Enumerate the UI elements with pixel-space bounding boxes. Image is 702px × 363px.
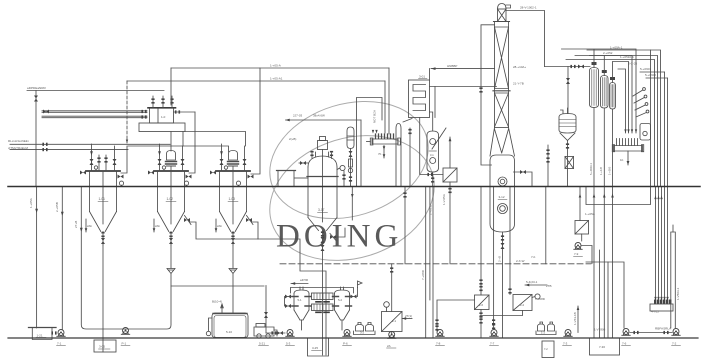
svg-text:2-+05B: 2-+05B <box>55 202 59 212</box>
drop wire B <box>61 187 63 331</box>
twin canister unit B base <box>536 331 556 335</box>
svg-text:RLxxLNxxNElm: RLxxLNxxNElm <box>8 139 30 143</box>
svg-text:NOT BZA: NOT BZA <box>373 110 377 123</box>
column right drain valve <box>514 172 533 186</box>
svg-text:1-+0-B: 1-+0-B <box>599 167 603 175</box>
filter C gauge <box>384 302 390 308</box>
drain tank rim <box>29 327 57 329</box>
left riser to ground <box>432 187 434 339</box>
funnel drain pipe to tank <box>232 274 234 313</box>
feed drop to P-1 <box>265 286 267 334</box>
riser wire pair <box>360 120 362 186</box>
pedestal outlet pipe <box>185 132 246 147</box>
heater serpentine coil <box>413 85 426 111</box>
mid riser wire <box>409 128 411 186</box>
svg-text:7-b: 7-b <box>531 255 536 259</box>
bin body 1-03 <box>220 172 247 212</box>
pump 7-1 <box>57 330 65 337</box>
heater outlet pipe <box>430 87 436 118</box>
svg-text:1-02: 1-02 <box>167 197 174 201</box>
inverted U pipe <box>396 124 401 187</box>
bin outlet flange 1-02 <box>169 232 172 237</box>
column packing section 2 <box>495 93 509 127</box>
column sump vessel <box>490 155 515 232</box>
twin canister B2 <box>548 324 555 331</box>
reactor 3-07 dome <box>308 156 337 167</box>
svg-text:7b: 7b <box>378 152 382 156</box>
svg-text:DOING: DOING <box>276 219 402 255</box>
svg-text:1-+09A-1: 1-+09A-1 <box>610 46 623 50</box>
filter A bypass pipe <box>480 311 523 316</box>
water feed pipe pair 2 <box>42 116 147 118</box>
svg-text:1-V503-1: 1-V503-1 <box>676 287 680 300</box>
filter B top arrow pipe <box>525 284 547 286</box>
condenser rail 1 <box>562 49 637 133</box>
agitator shaft 1-02 <box>170 166 172 224</box>
feed valve right 1-02 <box>182 146 184 171</box>
sparger support arrow <box>383 146 385 159</box>
filter B feed valve wire <box>509 187 511 295</box>
tank 5-10 <box>212 313 248 338</box>
caustic feed pipe pair <box>10 144 170 149</box>
side trap pipe 1-02 <box>189 112 195 173</box>
sump outlet wire <box>502 232 504 338</box>
pump P-1 <box>286 330 294 337</box>
svg-text:1-2: 1-2 <box>541 331 545 335</box>
filter C pump <box>391 332 393 335</box>
drop wire A <box>36 187 38 329</box>
rail B right drop wire <box>384 81 386 133</box>
dashed utility header <box>280 263 591 265</box>
svg-text:2TB: 2TB <box>546 284 552 288</box>
agitator shaft 1-03 <box>232 166 234 224</box>
lid side valve left 1-02 <box>148 171 154 175</box>
transfer header to reactor <box>258 239 300 252</box>
valve stack right <box>351 295 357 299</box>
svg-text:38x4.6W: 38x4.6W <box>313 114 325 118</box>
pump 7-3 <box>564 330 572 337</box>
filter loop top <box>291 288 354 294</box>
reactor outlet valve 2 <box>321 245 325 251</box>
svg-text:28-V-1002-1: 28-V-1002-1 <box>520 6 537 10</box>
long loop rail 1 <box>587 50 661 186</box>
filter D outlet <box>581 234 583 241</box>
svg-text:5-3: 5-3 <box>286 342 291 346</box>
svg-text:3-01: 3-01 <box>419 75 425 79</box>
reactor side tank pipe <box>295 177 309 179</box>
svg-text:1-+0510-1: 1-+0510-1 <box>620 55 634 59</box>
svg-text:7-30: 7-30 <box>599 345 605 349</box>
catchpot drain valve <box>349 151 353 157</box>
bin 1-02 side drain pipe <box>190 222 258 239</box>
heater inlet pipe with arrow <box>431 68 495 70</box>
pump P-1 inlet valves <box>277 331 283 335</box>
side trap pipe 1-03 <box>251 68 260 174</box>
degasser drain wire <box>432 172 434 186</box>
heater bottom diagonal strokes <box>403 119 446 150</box>
valve pair on caustic lines <box>42 143 47 146</box>
column divider flanges <box>493 90 510 92</box>
svg-text:5-1: 5-1 <box>298 298 302 302</box>
bin outlet valve 1-01 <box>101 238 105 244</box>
condenser E-2 top nozzle <box>603 72 605 76</box>
reactor 3-07 cone <box>308 218 337 231</box>
filter B square <box>513 295 532 311</box>
svg-text:7-2: 7-2 <box>544 347 548 351</box>
steam trap unit 3 <box>236 181 240 185</box>
svg-text:2Ab: 2Ab <box>217 224 222 228</box>
condenser E-3 drain wire <box>612 109 614 338</box>
column left nozzle loop <box>481 25 495 165</box>
column neck with brace <box>498 9 507 22</box>
sparger 7-02 drain arrow <box>627 151 629 165</box>
long loop rail 2 <box>575 56 658 187</box>
pump 7-6 <box>622 329 630 336</box>
filter vessel 5-1 outlet <box>301 320 303 330</box>
condenser E-1 drain wire <box>593 108 595 339</box>
svg-text:7-2: 7-2 <box>672 342 677 346</box>
reactor side outlet pipe <box>336 228 345 237</box>
svg-text:1-V7806: 1-V7806 <box>594 328 606 332</box>
svg-text:5-+0903-1: 5-+0903-1 <box>589 163 593 175</box>
heater drain to capsule pipe <box>430 112 433 131</box>
flash vessel top nozzle <box>561 108 568 114</box>
filter E square <box>443 168 457 182</box>
sump manway lower <box>498 204 508 214</box>
feed tank top valves <box>151 98 154 103</box>
side trap pipe 1-01 <box>121 146 127 173</box>
svg-text:RBFASRLA: RBFASRLA <box>655 327 672 331</box>
svg-text:7-6: 7-6 <box>622 342 627 346</box>
cooling water arrow pipe <box>291 283 308 285</box>
svg-text:2Ab: 2Ab <box>155 224 160 228</box>
flash vessel feed wire <box>567 67 569 114</box>
svg-text:1-+05A: 1-+05A <box>29 198 33 208</box>
instrument bubbles <box>643 88 646 91</box>
drain loop header <box>586 50 651 205</box>
svg-text:28-+10A+: 28-+10A+ <box>513 65 526 69</box>
feed valve left 1-03 <box>221 144 223 171</box>
mid riser pump wire <box>493 187 495 329</box>
steam trap unit 1 <box>119 181 123 185</box>
bin 1-01 outlet drop wire <box>102 245 104 352</box>
rail A pipe <box>171 67 389 69</box>
bin body 1-02 <box>158 172 185 212</box>
lid gauge 1-03 <box>224 166 227 169</box>
column 4-01 top cap <box>498 4 507 10</box>
heater right riser pipe <box>435 86 497 88</box>
condenser E-2 shell <box>601 76 609 109</box>
funnel under bin 1-02 <box>167 269 175 274</box>
filter C riser <box>391 264 393 312</box>
up arrows at main line <box>654 196 662 200</box>
svg-text:2T+B: 2T+B <box>74 221 78 228</box>
condenser E-1 top nozzle <box>593 64 595 68</box>
filter E inlet arrow wire <box>449 137 451 168</box>
lid side valve left 1-01 <box>80 171 86 175</box>
tank 5-10 vent arrow <box>221 304 224 313</box>
svg-text:2T(1): 2T(1) <box>405 314 412 318</box>
filter A square <box>475 295 490 310</box>
svg-text:1-03: 1-03 <box>229 197 236 201</box>
svg-text:2A: 2A <box>387 344 391 348</box>
condenser E-3 top nozzle <box>612 79 614 83</box>
svg-text:5-+0901: 5-+0901 <box>640 67 651 71</box>
bin 1-03 side drain valve <box>246 218 252 222</box>
svg-text:3-25: 3-25 <box>312 346 318 350</box>
standpipe top elbow <box>672 225 674 232</box>
white clay tank 7-30 <box>590 338 620 355</box>
svg-text:2-C-26: 2-C-26 <box>628 62 638 66</box>
svg-text:7-8: 7-8 <box>436 342 441 346</box>
svg-text:7-+08D: 7-+08D <box>535 297 546 301</box>
rail B pipe <box>127 80 385 82</box>
reactor outlet drop wire <box>322 231 324 356</box>
heater 3-01 box <box>409 80 430 118</box>
svg-text:3-05: 3-05 <box>99 345 105 349</box>
svg-text:1-+05-A1: 1-+05-A1 <box>270 77 283 81</box>
rail A left drop wire <box>170 68 172 105</box>
overhead elbow to condenser <box>545 66 591 68</box>
vent flag <box>358 281 363 288</box>
filter A outlet valves <box>479 312 482 317</box>
cone drain arrow 103 <box>85 219 87 232</box>
steam header pipe <box>27 90 164 92</box>
svg-text:1-0: 1-0 <box>161 115 166 119</box>
riser to ground mid <box>545 187 547 264</box>
svg-text:aDPDEaNRR: aDPDEaNRR <box>27 86 47 90</box>
filter vessel 5-2 flanges <box>333 297 352 307</box>
vent valve stack <box>547 145 549 186</box>
standpipe pair <box>671 232 676 328</box>
bin cone 1-03 <box>220 212 247 232</box>
valve stack left <box>285 295 291 299</box>
svg-text:3-2: 3-2 <box>360 331 364 335</box>
feed tank base plate <box>139 123 185 132</box>
column body <box>495 22 509 128</box>
canister B label box <box>542 341 554 358</box>
feed tank side valve <box>175 110 180 113</box>
mixer bin unit 1-03 lid <box>216 170 250 172</box>
svg-text:1-+050: 1-+050 <box>608 166 612 175</box>
steam drop wire <box>35 91 37 187</box>
svg-text:3-1: 3-1 <box>430 153 434 157</box>
svg-text:3-12: 3-12 <box>499 195 505 199</box>
feed valve left 1-02 <box>159 144 161 171</box>
svg-text:5-21: 5-21 <box>259 342 265 346</box>
sparger inlet pipe <box>367 141 371 143</box>
bin 1-03 side drain pipe <box>252 222 258 239</box>
pump 7-9 discharge pipe <box>582 246 593 264</box>
mixer bin unit 1-02 lid <box>154 170 188 172</box>
sparger 7-02 teeth <box>617 139 638 146</box>
filter A outlet wire <box>480 310 482 339</box>
reactor outlet valve <box>321 237 325 243</box>
catchpot lower pot <box>349 159 353 167</box>
svg-text:3-07: 3-07 <box>318 208 325 212</box>
filter A feed wire <box>480 187 482 296</box>
degasser ports <box>430 139 436 145</box>
vapor pipe with arrow <box>286 119 362 121</box>
bin 1-02 outlet drop wire <box>170 245 172 268</box>
seal drum <box>565 157 574 169</box>
reactor right nozzle valves <box>343 171 345 186</box>
filter C side arrow <box>402 318 412 320</box>
reactor outlet flange <box>321 231 324 236</box>
reactor agitator motor <box>318 141 328 150</box>
drop wire pair with label <box>426 187 430 339</box>
column cone flare <box>490 128 515 157</box>
column overhead pipe <box>506 11 545 67</box>
long loop rail 3 <box>566 60 655 187</box>
sump manway upper <box>498 177 507 186</box>
agitator shaft 1-01 <box>102 171 104 224</box>
svg-text:2-+052: 2-+052 <box>603 51 613 55</box>
condenser E-2 tubes <box>602 78 606 107</box>
svg-text:1-21: 1-21 <box>37 334 43 338</box>
reactor left feed valve <box>300 161 306 165</box>
sight glass box <box>640 124 651 141</box>
bin 1-03 outlet drop wire <box>232 245 234 268</box>
riser up arrow <box>351 194 354 198</box>
rail B left drop dashed wire <box>126 81 128 143</box>
reactor 3-07 flange line <box>307 176 338 178</box>
reactor discharge elbow pipe <box>300 252 326 355</box>
svg-text:5-2: 5-2 <box>338 298 342 302</box>
filter E inlet pipe <box>420 118 443 175</box>
svg-text:2-1: 2-1 <box>392 319 396 323</box>
lid gauge 1-02 <box>162 166 165 169</box>
rail arrows at sparger <box>624 129 637 133</box>
filter vessel 5-1 dome <box>294 290 309 294</box>
svg-text:4-T05: 4-T05 <box>651 310 659 314</box>
filter A inlet elbow <box>437 300 475 331</box>
svg-text:P-6: P-6 <box>343 342 348 346</box>
top nozzle valves 1-01 <box>99 155 106 171</box>
funnel drain elbow pipe <box>81 187 171 330</box>
agitator motor 1-03 <box>229 151 238 161</box>
lid gauge 1-01 <box>94 166 97 169</box>
steam trap unit 2 <box>184 181 188 185</box>
pit label box 3-05 <box>94 340 116 352</box>
svg-text:7-9: 7-9 <box>574 252 579 256</box>
degasser capsule 3-08 <box>427 131 439 172</box>
cone drain arrow 233 <box>215 219 217 232</box>
engine unit <box>254 327 274 336</box>
svg-text:7-+08D: 7-+08D <box>421 269 425 280</box>
flash vessel shell <box>559 114 576 134</box>
exchanger bar lower <box>312 304 334 311</box>
svg-text:1-+0510: 1-+0510 <box>429 204 433 215</box>
sparger header 7-01 <box>372 139 398 144</box>
svg-text:HNBBP: HNBBP <box>447 64 457 68</box>
bin outlet valve 1-02 <box>169 238 173 244</box>
svg-text:7-7: 7-7 <box>490 342 495 346</box>
feed valve left 1-01 <box>91 144 93 171</box>
svg-text:2-X-W: 2-X-W <box>516 259 525 263</box>
svg-text:2-6: 2-6 <box>479 303 483 307</box>
bin body 1-01 <box>90 172 117 212</box>
manifold bar <box>654 300 656 305</box>
overhead nozzle stub <box>506 5 511 8</box>
condenser E-3 shell <box>610 83 616 110</box>
flash vessel drain wire <box>567 141 569 187</box>
sparger header 7-02 <box>614 146 643 152</box>
filter vessel 5-2 body <box>335 294 350 311</box>
reactor dome nozzles <box>312 152 332 159</box>
filter D square <box>575 221 589 235</box>
twin canister A2 <box>366 325 374 332</box>
bin cone 1-02 <box>158 212 185 232</box>
filter vessel 5-1 cone <box>294 310 309 320</box>
filter vessel 5-1 body <box>294 294 309 311</box>
bin outlet flange 1-01 <box>101 232 104 237</box>
catchpot drain wire <box>350 149 352 187</box>
flash vessel cone <box>560 133 575 141</box>
svg-text:2-+B: 2-+B <box>498 256 502 262</box>
condenser E-1 tubes <box>592 70 596 106</box>
filter vessel 5-2 outlet <box>341 320 343 330</box>
sparger teeth <box>376 134 394 139</box>
valve on steam drop <box>34 96 38 102</box>
rail A right drop wire <box>388 68 390 134</box>
svg-text:1-01: 1-01 <box>99 197 106 201</box>
condenser E-2 drain wire <box>603 108 605 338</box>
svg-text:1-V63-1B: 1-V63-1B <box>573 312 577 325</box>
reactor gauge <box>340 165 345 170</box>
filter vessel 5-2 cone <box>335 310 350 320</box>
feed tank 1-02 <box>150 108 174 124</box>
ground line <box>8 337 698 339</box>
svg-text:21-Y-7B: 21-Y-7B <box>513 82 524 86</box>
cone drain arrow 171 <box>153 219 155 232</box>
svg-text:1b: 1b <box>620 158 624 162</box>
svg-text:7-3: 7-3 <box>563 342 568 346</box>
pump 7-2 <box>672 329 680 336</box>
svg-text:5-10: 5-10 <box>226 330 232 334</box>
watermark swirl ellipse <box>254 83 450 280</box>
sparger feed arrows <box>372 130 378 134</box>
bin cone 1-01 <box>90 212 117 232</box>
transfer pipe to unit 3 <box>128 146 229 152</box>
drop wire x405 <box>404 187 406 264</box>
bin outlet flange 1-03 <box>231 232 234 237</box>
exchanger bold ticks <box>316 302 329 313</box>
tank feed wires <box>600 250 609 338</box>
pump 7-9 <box>574 243 582 250</box>
reactor 3-07 body <box>308 167 337 218</box>
filter D riser <box>579 187 581 221</box>
twin canister B1 <box>538 324 545 331</box>
condenser E-3 tubes <box>611 85 614 108</box>
bin 1-02 side drain valve <box>184 218 190 222</box>
svg-text:1-+05-A: 1-+05-A <box>270 64 281 68</box>
svg-text:2J7-03: 2J7-03 <box>293 114 303 118</box>
filter E outlet wire <box>449 182 451 264</box>
transfer pipe 7-6 to 7-2 <box>630 332 672 334</box>
pump P-1 <box>121 328 129 335</box>
condenser rail 4 <box>618 69 626 133</box>
exchanger bar upper <box>312 293 334 300</box>
svg-text:1-+05A: 1-+05A <box>585 212 595 216</box>
condenser rail 3 <box>613 62 629 134</box>
condenser E-1 shell <box>590 68 599 108</box>
drain collect line <box>586 262 624 328</box>
twin canister A1 <box>356 325 364 332</box>
water feed pipe pair 1 <box>42 111 147 113</box>
drain tank 1-21 <box>32 328 52 340</box>
svg-text:5-4(23-1: 5-4(23-1 <box>526 280 538 284</box>
